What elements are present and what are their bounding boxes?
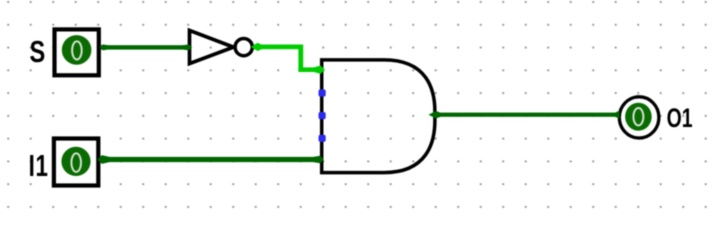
input S box: [55, 29, 99, 75]
wire AND output to O1: [429, 111, 620, 119]
input I1 box: [54, 139, 98, 186]
input I1 state circle (value 0): [61, 147, 90, 176]
wire I1 to AND input: [97, 155, 323, 164]
node pin3 (blue dot, unconnected input): [319, 112, 326, 119]
node pin4 (blue dot, unconnected input): [319, 135, 326, 142]
output O1 digit 0: [633, 108, 643, 125]
svg-text:S: S: [30, 34, 46, 69]
input S digit 0: [72, 41, 82, 59]
svg-text:O1: O1: [667, 103, 693, 133]
output O1 state circle (value 0): [625, 103, 652, 131]
and-gate U1: [322, 60, 435, 173]
output O1 ring: [619, 97, 659, 138]
wire S to NOT gate: [99, 44, 192, 50]
not-gate G1 triangle: [190, 30, 234, 63]
input S state circle (value 0): [62, 35, 92, 65]
not-gate G1 bubble: [235, 39, 252, 56]
svg-text:I1: I1: [29, 148, 49, 182]
node pin2 (blue dot, unconnected input): [319, 89, 326, 96]
input I1 digit 0: [71, 153, 81, 172]
wire NOT bubble to AND input (bright green, logic 1): [251, 43, 325, 74]
